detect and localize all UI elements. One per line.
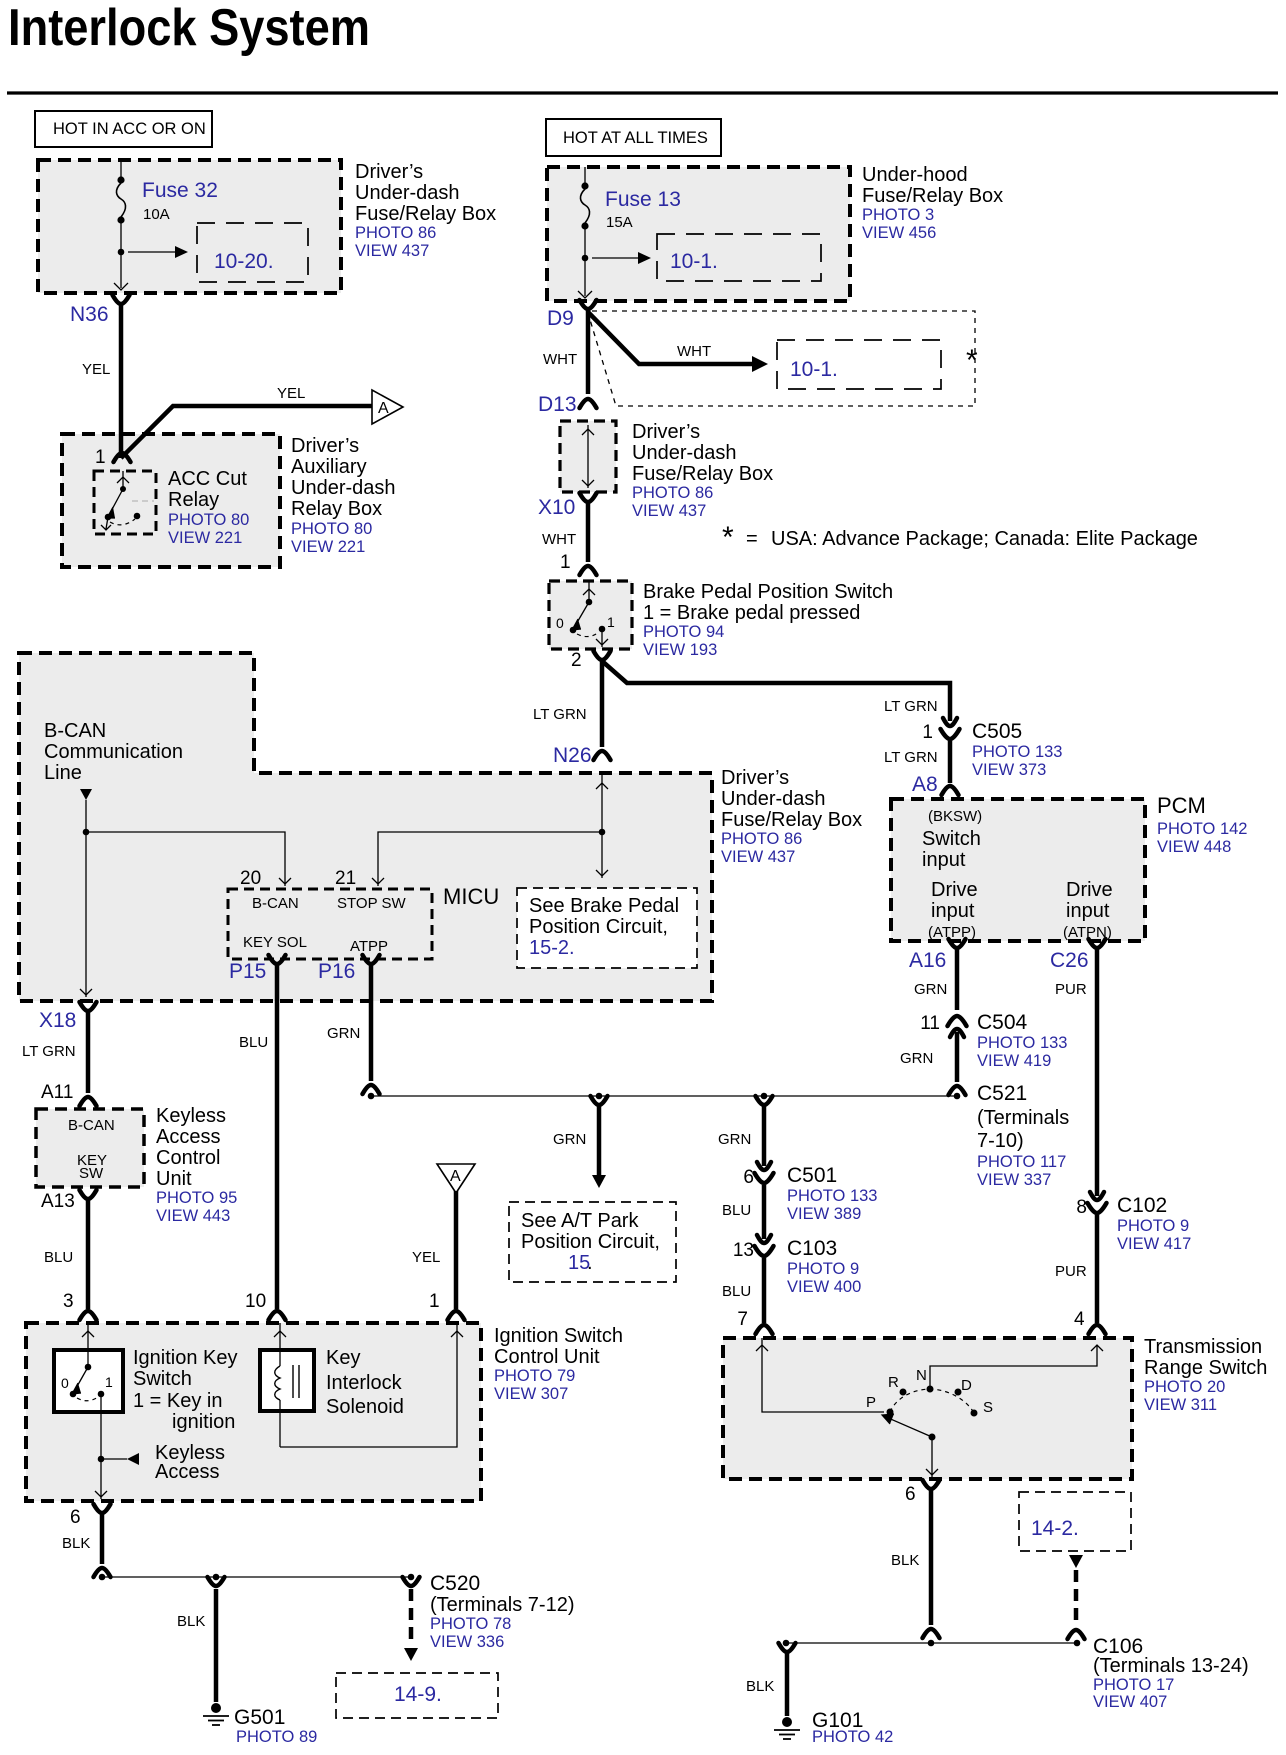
junction dot A/T park branch [596, 1093, 603, 1100]
ignition switch output [100, 1459, 102, 1499]
ref box 14-2. [1019, 1492, 1131, 1551]
box MICU [228, 889, 432, 959]
fuse F32 Fuse 32 10A [120, 160, 122, 177]
svg-text:PHOTO 17: PHOTO 17 [1093, 1676, 1174, 1694]
svg-text:Switch: Switch [922, 828, 981, 850]
wire BLU P15 to pin 10 [275, 965, 280, 1309]
svg-text:4: 4 [1074, 1309, 1085, 1330]
svg-text:PUR: PUR [1055, 981, 1087, 998]
wire GRN P16 down [369, 965, 374, 1081]
svg-text:PHOTO 133: PHOTO 133 [787, 1187, 877, 1205]
svg-text:10-1.: 10-1. [670, 250, 718, 273]
internal wire N26 down [601, 775, 603, 878]
wire YEL branch to A [121, 406, 372, 458]
svg-text:P16: P16 [318, 960, 355, 983]
svg-text:Control: Control [156, 1147, 220, 1169]
junction dot P16 end [368, 1093, 375, 1100]
svg-text:Fuse/Relay Box: Fuse/Relay Box [355, 203, 496, 225]
svg-text:X10: X10 [538, 496, 575, 519]
junction dot fuse 13 tap [582, 255, 589, 262]
svg-text:KEY SOL: KEY SOL [243, 934, 307, 951]
svg-text:PHOTO 3: PHOTO 3 [862, 206, 934, 224]
svg-text:C521: C521 [977, 1082, 1027, 1105]
junction dot fuse 32 tap [118, 249, 125, 256]
svg-text:=: = [746, 528, 758, 550]
inline connector C103 [757, 1235, 771, 1243]
svg-text:PHOTO 95: PHOTO 95 [156, 1189, 237, 1207]
svg-text:N36: N36 [70, 303, 109, 326]
wire PUR C102 to pin 4 [1095, 1215, 1100, 1323]
svg-text:R: R [888, 1374, 899, 1391]
wire LT GRN pin2 to N26 [600, 661, 605, 747]
svg-text:VIEW 407: VIEW 407 [1093, 1693, 1167, 1711]
junction dot C501 branch [761, 1093, 768, 1100]
B-CAN line arrow [80, 789, 92, 800]
arrow exit bottom of underhood box [578, 291, 592, 298]
svg-text:Relay Box: Relay Box [291, 498, 382, 520]
svg-text:Transmission: Transmission [1144, 1336, 1262, 1358]
svg-text:PCM: PCM [1157, 793, 1206, 818]
wire BLK pin 6 [100, 1514, 105, 1564]
svg-text:A: A [450, 1168, 461, 1185]
connector X18 [80, 1002, 97, 1011]
wire YEL A to pin 1 [454, 1191, 459, 1309]
arrow exit bottom of fuse box [114, 283, 128, 290]
box Transmission Range Switch [723, 1338, 1132, 1479]
box Driver's Under-dash Fuse/Relay Box (Fuse 32) [38, 160, 341, 293]
svg-text:D9: D9 [547, 307, 574, 330]
svg-text:VIEW 448: VIEW 448 [1157, 838, 1231, 856]
wire LT GRN branch to C505 [602, 661, 950, 721]
svg-text:BLU: BLU [722, 1283, 751, 1300]
svg-text:GRN: GRN [553, 1131, 586, 1148]
connector N26 [594, 751, 611, 760]
ref box See Brake Pedal Position Circuit 15-2 [517, 888, 697, 968]
svg-text:10A: 10A [143, 206, 170, 223]
svg-text:1: 1 [95, 447, 106, 468]
svg-text:(Terminals 7-12): (Terminals 7-12) [430, 1594, 574, 1616]
svg-text:6: 6 [70, 1507, 81, 1528]
svg-text:PHOTO 20: PHOTO 20 [1144, 1378, 1225, 1396]
connector C26 [1089, 939, 1106, 948]
node wire GRN horizontal [371, 1095, 957, 1097]
connector P16 [363, 955, 380, 964]
svg-text:10-1.: 10-1. [790, 358, 838, 381]
svg-text:(ATPP): (ATPP) [928, 924, 976, 941]
relay contact dashed arc [110, 519, 135, 525]
box Driver's Under-dash Fuse/Relay Box pass-through [560, 421, 616, 492]
ignition key switch internals [87, 1323, 89, 1367]
svg-text:13: 13 [733, 1240, 754, 1261]
svg-text:*: * [966, 344, 978, 377]
contact R [900, 1389, 907, 1396]
svg-text:YEL: YEL [412, 1249, 440, 1266]
svg-text:14-9.: 14-9. [394, 1683, 442, 1706]
connector P15 [269, 955, 286, 964]
svg-text:BLK: BLK [62, 1535, 90, 1552]
svg-text:C103: C103 [787, 1237, 837, 1260]
svg-text:input: input [931, 900, 975, 922]
svg-text:VIEW 437: VIEW 437 [721, 848, 795, 866]
wire dashed to 14-9 [409, 1589, 414, 1645]
svg-text:C102: C102 [1117, 1194, 1167, 1217]
svg-text:SW: SW [79, 1165, 104, 1182]
ref box 10-1. [657, 234, 821, 281]
wire WHT D9 to D13 [586, 310, 591, 394]
svg-text:Fuse/Relay Box: Fuse/Relay Box [862, 185, 1003, 207]
svg-text:Position Circuit,: Position Circuit, [529, 916, 668, 938]
connector A16 [949, 939, 966, 948]
svg-text:N26: N26 [553, 744, 592, 767]
svg-text:Driver’s: Driver’s [721, 767, 789, 789]
optional region dashed outline (USA/Canada) [588, 311, 975, 406]
wire BLU C103 to pin 7 [762, 1258, 767, 1323]
branch to G101 [779, 1643, 796, 1652]
contact S [971, 1410, 978, 1417]
arrow to 10-1 [592, 257, 638, 259]
svg-text:BLU: BLU [722, 1202, 751, 1219]
keyless access line [100, 1394, 102, 1459]
connector end P16 wire [363, 1085, 380, 1094]
svg-text:3: 3 [63, 1291, 74, 1312]
svg-text:PHOTO 42: PHOTO 42 [812, 1728, 893, 1746]
svg-text:VIEW 336: VIEW 336 [430, 1633, 504, 1651]
svg-text:1: 1 [607, 614, 615, 630]
svg-text:7-10): 7-10) [977, 1130, 1024, 1152]
contact P [887, 1409, 894, 1416]
svg-text:A11: A11 [41, 1082, 73, 1103]
svg-text:PHOTO 86: PHOTO 86 [721, 830, 802, 848]
connector A8 [942, 786, 959, 795]
svg-text:VIEW 221: VIEW 221 [168, 529, 242, 547]
ref box 14-9. [336, 1673, 498, 1718]
svg-text:PHOTO 86: PHOTO 86 [632, 484, 713, 502]
wire WHT branch to 10-1 [588, 312, 752, 364]
wire WHT X10 to brake switch [586, 503, 591, 562]
inline connector C504 [948, 1016, 967, 1026]
svg-text:1 = Key in: 1 = Key in [133, 1390, 223, 1412]
svg-text:USA: Advance Package; Canada:: USA: Advance Package; Canada: Elite Pack… [771, 528, 1198, 550]
svg-text:B-CAN: B-CAN [252, 895, 299, 912]
inline connector C505 [943, 718, 957, 726]
solenoid coil [279, 1323, 281, 1366]
svg-text:Auxiliary: Auxiliary [291, 456, 367, 478]
svg-text:C504: C504 [977, 1011, 1028, 1034]
box Brake Pedal Position Switch [549, 581, 632, 649]
svg-text:20: 20 [240, 868, 261, 889]
svg-text:N: N [916, 1367, 927, 1384]
connector D9 [580, 300, 597, 309]
ACC cut relay internals [122, 471, 124, 489]
svg-text:VIEW 307: VIEW 307 [494, 1385, 568, 1403]
svg-text:P: P [866, 1394, 876, 1411]
svg-text:Drive: Drive [1066, 879, 1113, 901]
svg-text:A: A [378, 400, 389, 417]
svg-text:PHOTO 79: PHOTO 79 [494, 1367, 575, 1385]
svg-text:D: D [961, 1377, 972, 1394]
svg-text:D13: D13 [538, 393, 577, 416]
svg-text:21: 21 [335, 868, 356, 889]
svg-text:Access: Access [156, 1126, 220, 1148]
svg-text:P15: P15 [229, 960, 266, 983]
svg-text:1: 1 [922, 722, 933, 743]
svg-text:.: . [587, 1252, 593, 1274]
svg-text:Range Switch: Range Switch [1144, 1357, 1267, 1379]
svg-text:VIEW 400: VIEW 400 [787, 1278, 861, 1296]
wire GRN C504 to C521 [955, 1032, 960, 1082]
svg-text:Fuse 32: Fuse 32 [142, 179, 218, 202]
svg-text:VIEW 389: VIEW 389 [787, 1205, 861, 1223]
wire BLK pin6 trans [929, 1490, 934, 1625]
transmission switch internals [762, 1338, 884, 1412]
inline connector C102 [1090, 1192, 1104, 1200]
branch to See A/T Park Position Circuit [591, 1096, 608, 1105]
junction dot B-CAN [83, 829, 90, 836]
svg-text:GRN: GRN [900, 1050, 933, 1067]
tag HOT IN ACC OR ON [35, 111, 212, 147]
svg-text:PHOTO 86: PHOTO 86 [355, 224, 436, 242]
svg-text:PHOTO 142: PHOTO 142 [1157, 820, 1247, 838]
svg-text:input: input [922, 849, 966, 871]
svg-text:PHOTO 94: PHOTO 94 [643, 623, 724, 641]
solenoid return wire [280, 1323, 457, 1447]
svg-text:input: input [1066, 900, 1110, 922]
svg-text:PHOTO 9: PHOTO 9 [787, 1260, 859, 1278]
svg-text:YEL: YEL [82, 361, 110, 378]
svg-text:C520: C520 [430, 1572, 480, 1595]
svg-text:1 = Brake pedal pressed: 1 = Brake pedal pressed [643, 602, 860, 624]
svg-text:Under-dash: Under-dash [721, 788, 826, 810]
svg-text:VIEW 311: VIEW 311 [1144, 1396, 1217, 1414]
svg-text:ignition: ignition [172, 1411, 235, 1433]
svg-text:PHOTO 78: PHOTO 78 [430, 1615, 511, 1633]
svg-text:VIEW 456: VIEW 456 [862, 224, 936, 242]
svg-text:(Terminals: (Terminals [977, 1107, 1069, 1129]
svg-text:Position Circuit,: Position Circuit, [521, 1231, 660, 1253]
svg-text:7: 7 [737, 1309, 748, 1330]
svg-text:VIEW 193: VIEW 193 [643, 641, 717, 659]
internal wire B-CAN vertical [85, 800, 87, 997]
svg-text:BLK: BLK [891, 1552, 919, 1569]
svg-text:0: 0 [556, 615, 564, 631]
svg-text:Switch: Switch [133, 1368, 192, 1390]
wire YEL N36 to ACC cut relay [119, 305, 124, 458]
svg-text:PHOTO 80: PHOTO 80 [291, 520, 372, 538]
svg-text:*: * [722, 521, 734, 554]
svg-text:WHT: WHT [677, 343, 711, 360]
svg-text:Under-dash: Under-dash [632, 442, 737, 464]
svg-text:Keyless: Keyless [156, 1105, 226, 1127]
ref box See A/T Park Position Circuit 15 [509, 1202, 676, 1282]
svg-text:BLK: BLK [177, 1613, 205, 1630]
svg-text:VIEW 417: VIEW 417 [1117, 1235, 1191, 1253]
switch dashed arc [577, 632, 599, 637]
svg-text:Driver’s: Driver’s [632, 421, 700, 443]
selector lever [886, 1417, 932, 1437]
svg-text:See Brake Pedal: See Brake Pedal [529, 895, 679, 917]
svg-text:6: 6 [743, 1167, 754, 1188]
ignition key switch box [54, 1350, 123, 1412]
svg-text:VIEW 221: VIEW 221 [291, 538, 365, 556]
svg-text:10: 10 [245, 1291, 266, 1312]
svg-text:X18: X18 [39, 1009, 76, 1032]
svg-text:PHOTO 133: PHOTO 133 [972, 743, 1062, 761]
svg-text:C26: C26 [1050, 949, 1089, 972]
svg-text:Interlock: Interlock [326, 1372, 403, 1394]
svg-text:LT GRN: LT GRN [533, 706, 587, 723]
svg-text:ACC Cut: ACC Cut [168, 468, 247, 490]
connector N36 [113, 295, 130, 304]
svg-text:Access: Access [155, 1461, 219, 1483]
box Under-hood Fuse/Relay Box (Fuse 13) [547, 167, 850, 301]
svg-text:B-CAN: B-CAN [44, 720, 106, 742]
svg-text:2: 2 [571, 650, 582, 671]
ref box 10-20. [197, 223, 308, 282]
box Driver's Under-dash Fuse/Relay Box (MICU) [19, 653, 712, 1001]
svg-text:Ignition Switch: Ignition Switch [494, 1325, 623, 1347]
svg-text:(BKSW): (BKSW) [928, 808, 982, 825]
svg-text:Control Unit: Control Unit [494, 1346, 600, 1368]
svg-text:PUR: PUR [1055, 1263, 1087, 1280]
svg-text:Relay: Relay [168, 489, 219, 511]
off-page arrow A (down) [437, 1164, 475, 1193]
wire LT GRN X18 to A11 [86, 1012, 91, 1093]
svg-text:(Terminals 13-24): (Terminals 13-24) [1093, 1655, 1249, 1677]
svg-text:VIEW 419: VIEW 419 [977, 1052, 1051, 1070]
svg-text:Unit: Unit [156, 1168, 192, 1190]
svg-text:A13: A13 [41, 1191, 75, 1212]
svg-text:Fuse/Relay Box: Fuse/Relay Box [632, 463, 773, 485]
svg-text:Brake Pedal Position Switch: Brake Pedal Position Switch [643, 581, 893, 603]
relay K1 ACC Cut Relay inner box [94, 471, 156, 534]
inline connector C501 [757, 1162, 771, 1170]
svg-text:Communication: Communication [44, 741, 183, 763]
arrow to 10-20 [128, 251, 175, 253]
svg-text:VIEW 437: VIEW 437 [632, 502, 706, 520]
branch to C520 [403, 1577, 420, 1586]
branch to G501 [208, 1577, 225, 1586]
svg-text:Drive: Drive [931, 879, 978, 901]
svg-text:15-2.: 15-2. [529, 937, 575, 959]
svg-text:C505: C505 [972, 720, 1022, 743]
svg-text:Under-dash: Under-dash [291, 477, 396, 499]
svg-text:Under-dash: Under-dash [355, 182, 460, 204]
svg-text:LT GRN: LT GRN [22, 1043, 76, 1060]
svg-text:15A: 15A [606, 214, 633, 231]
svg-text:VIEW 443: VIEW 443 [156, 1207, 230, 1225]
svg-text:6: 6 [905, 1484, 916, 1505]
svg-text:Driver’s: Driver’s [355, 161, 423, 183]
svg-text:1: 1 [560, 552, 571, 573]
svg-text:A8: A8 [912, 773, 938, 796]
ref box 10-1. (asterisk) [777, 340, 941, 389]
contact N [927, 1386, 934, 1393]
selector output to pin 6 [931, 1437, 933, 1477]
key interlock solenoid box [260, 1350, 314, 1411]
box Keyless Access Control Unit [36, 1109, 144, 1187]
svg-text:14-2.: 14-2. [1031, 1517, 1079, 1540]
connector end C521 [949, 1086, 966, 1095]
svg-text:S: S [983, 1399, 993, 1416]
svg-text:HOT AT ALL TIMES: HOT AT ALL TIMES [563, 129, 708, 147]
connector D13 [580, 399, 597, 408]
svg-text:GRN: GRN [718, 1131, 751, 1148]
svg-text:MICU: MICU [443, 884, 499, 909]
svg-text:LT GRN: LT GRN [884, 698, 938, 715]
svg-text:Key: Key [326, 1347, 360, 1369]
svg-text:A16: A16 [909, 949, 946, 972]
tag HOT AT ALL TIMES [546, 119, 721, 156]
svg-text:Ignition Key: Ignition Key [133, 1347, 238, 1369]
junction dot N26 branch [599, 829, 606, 836]
svg-text:VIEW 373: VIEW 373 [972, 761, 1046, 779]
svg-text:WHT: WHT [542, 531, 576, 548]
svg-text:YEL: YEL [277, 385, 305, 402]
svg-text:B-CAN: B-CAN [68, 1117, 115, 1134]
svg-text:PHOTO 9: PHOTO 9 [1117, 1217, 1189, 1235]
selector dashed arc [890, 1389, 974, 1413]
relay coil hint line [132, 500, 154, 502]
wire BLU C501 to C103 [762, 1185, 767, 1239]
svg-text:G501: G501 [234, 1706, 285, 1729]
svg-text:8: 8 [1076, 1197, 1087, 1218]
svg-text:Interlock System: Interlock System [8, 0, 370, 57]
switch output to pin 2 [601, 632, 603, 647]
svg-text:ATPP: ATPP [350, 938, 388, 955]
svg-text:C501: C501 [787, 1164, 837, 1187]
svg-text:10-20.: 10-20. [214, 250, 274, 273]
svg-text:WHT: WHT [543, 351, 577, 368]
svg-text:Fuse 13: Fuse 13 [605, 188, 681, 211]
svg-text:PHOTO 80: PHOTO 80 [168, 511, 249, 529]
ground G501 [211, 1703, 221, 1713]
svg-text:1: 1 [105, 1374, 113, 1390]
junction dot C521 [954, 1093, 961, 1100]
wire dashed from 14-2 to C106 [1069, 1555, 1083, 1568]
wire LT GRN C505 to A8 [948, 741, 953, 783]
title rule [7, 91, 1278, 94]
N contact to pin 4 [930, 1345, 1097, 1389]
ground node line right [786, 1642, 1077, 1644]
box Driver's Auxiliary Under-dash Relay Box [62, 434, 280, 567]
svg-text:GRN: GRN [914, 981, 947, 998]
svg-text:PHOTO 133: PHOTO 133 [977, 1034, 1067, 1052]
off-page arrow A (right) [372, 390, 403, 424]
svg-text:BLU: BLU [44, 1249, 73, 1266]
fuse F13 Fuse 13 15A [584, 167, 586, 183]
svg-text:PHOTO 89: PHOTO 89 [236, 1728, 317, 1746]
box Ignition Switch Control Unit [26, 1323, 481, 1501]
svg-text:0: 0 [61, 1375, 69, 1391]
svg-text:Solenoid: Solenoid [326, 1396, 404, 1418]
branch GRN to C501 [756, 1096, 773, 1105]
wire GRN A16 to C504 [955, 949, 960, 1010]
svg-text:GRN: GRN [327, 1025, 360, 1042]
svg-text:LT GRN: LT GRN [884, 749, 938, 766]
brake switch internals [588, 581, 590, 602]
contact D [955, 1389, 962, 1396]
ground node line left [102, 1576, 411, 1578]
svg-text:STOP SW: STOP SW [337, 895, 406, 912]
box PCM [891, 799, 1145, 941]
svg-text:HOT IN ACC OR ON: HOT IN ACC OR ON [53, 120, 206, 138]
connector X10 [580, 493, 597, 502]
ground G101 [782, 1717, 792, 1727]
internal wire to MICU pin 21 [378, 832, 602, 886]
switch contact 1 dot [599, 626, 606, 633]
svg-text:PHOTO 117: PHOTO 117 [977, 1153, 1066, 1171]
svg-text:Line: Line [44, 762, 82, 784]
